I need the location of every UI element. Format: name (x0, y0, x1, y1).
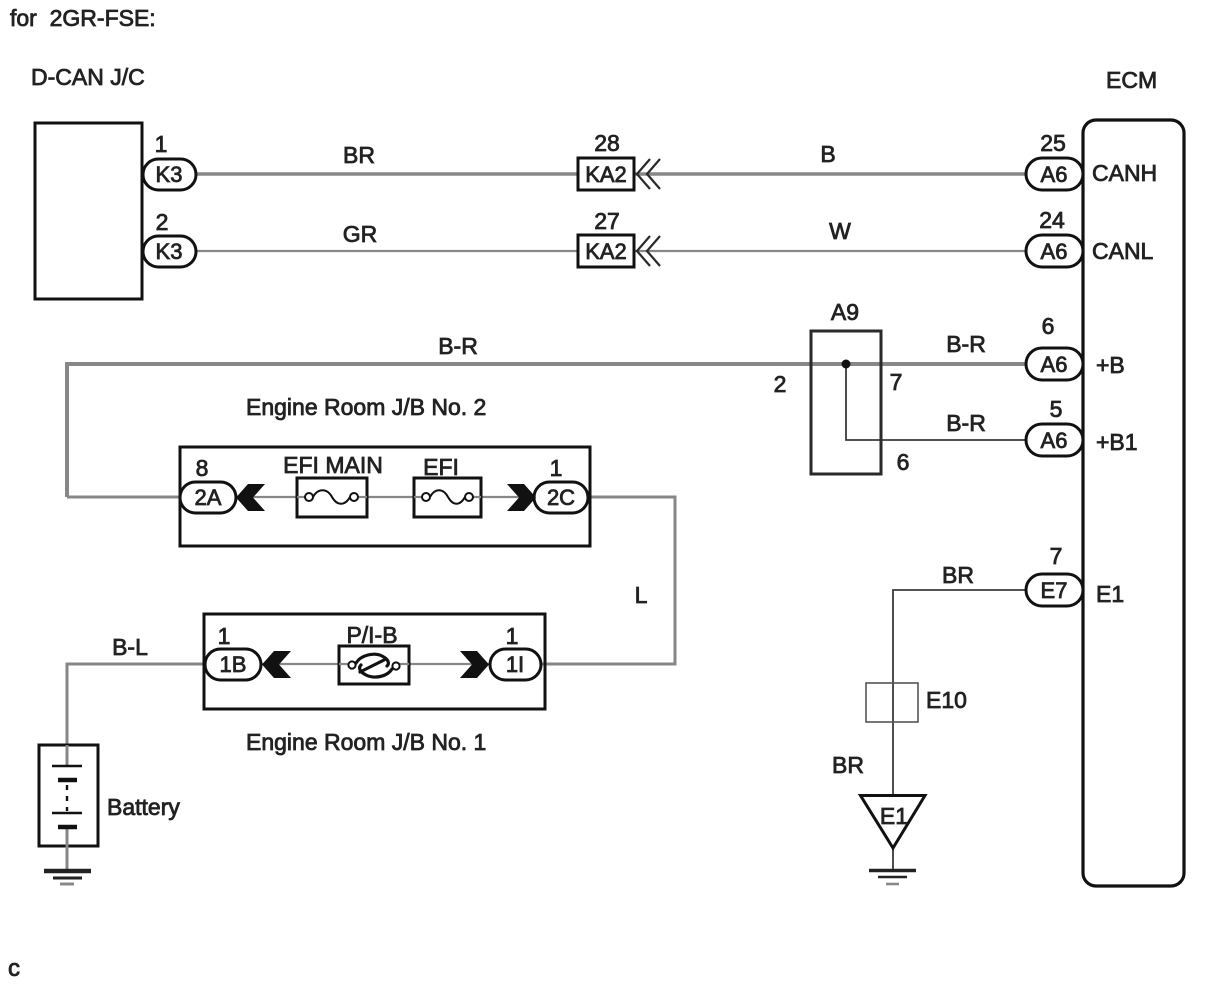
svg-text:E10: E10 (926, 687, 967, 713)
svg-text:1: 1 (218, 623, 231, 649)
svg-text:2: 2 (774, 371, 787, 397)
svg-text:2C: 2C (547, 485, 575, 510)
svg-text:Engine Room J/B No. 1: Engine Room J/B No. 1 (246, 729, 486, 755)
svg-text:KA2: KA2 (585, 239, 627, 264)
svg-text:for 2GR-FSE:: for 2GR-FSE: (10, 5, 156, 31)
svg-text:5: 5 (1050, 396, 1063, 422)
svg-text:EFI MAIN: EFI MAIN (283, 452, 383, 478)
svg-text:27: 27 (594, 208, 620, 234)
svg-text:A6: A6 (1041, 239, 1068, 264)
svg-text:B: B (820, 141, 835, 167)
svg-text:D-CAN J/C: D-CAN J/C (31, 64, 145, 90)
svg-text:+B1: +B1 (1096, 429, 1138, 455)
svg-text:ECM: ECM (1106, 67, 1157, 93)
svg-text:BR: BR (343, 142, 375, 168)
svg-text:K3: K3 (156, 239, 183, 264)
svg-text:1: 1 (155, 131, 168, 157)
svg-text:CANL: CANL (1092, 238, 1154, 264)
svg-text:1I: 1I (506, 652, 524, 677)
svg-text:L: L (635, 582, 648, 608)
svg-text:KA2: KA2 (585, 162, 627, 187)
svg-text:K3: K3 (156, 162, 183, 187)
svg-text:BR: BR (942, 562, 974, 588)
svg-text:P/I-B: P/I-B (346, 622, 397, 648)
svg-text:Battery: Battery (107, 794, 180, 820)
svg-text:B-L: B-L (112, 634, 148, 660)
svg-text:24: 24 (1039, 207, 1065, 233)
svg-text:EFI: EFI (423, 454, 459, 480)
svg-text:A6: A6 (1041, 352, 1068, 377)
svg-text:+B: +B (1096, 352, 1125, 378)
svg-text:7: 7 (890, 369, 903, 395)
svg-text:c: c (8, 955, 20, 982)
svg-text:A6: A6 (1041, 162, 1068, 187)
svg-text:25: 25 (1040, 130, 1066, 156)
svg-text:7: 7 (1050, 543, 1063, 569)
svg-text:E7: E7 (1041, 578, 1068, 603)
svg-text:W: W (829, 218, 851, 244)
svg-text:E1: E1 (1096, 581, 1124, 607)
svg-text:B-R: B-R (946, 331, 986, 357)
svg-text:1B: 1B (220, 652, 247, 677)
svg-text:A6: A6 (1041, 428, 1068, 453)
svg-text:B-R: B-R (946, 410, 986, 436)
svg-text:BR: BR (832, 752, 864, 778)
svg-text:CANH: CANH (1092, 160, 1157, 186)
svg-text:GR: GR (343, 221, 378, 247)
svg-text:2A: 2A (195, 485, 222, 510)
svg-text:B-R: B-R (438, 333, 478, 359)
svg-text:6: 6 (897, 449, 910, 475)
svg-text:1: 1 (506, 623, 519, 649)
svg-text:2: 2 (156, 209, 169, 235)
svg-text:E1: E1 (880, 803, 908, 829)
svg-text:Engine Room J/B No. 2: Engine Room J/B No. 2 (246, 394, 486, 420)
svg-text:6: 6 (1042, 313, 1055, 339)
svg-text:A9: A9 (831, 299, 859, 325)
svg-text:8: 8 (196, 455, 209, 481)
svg-text:28: 28 (594, 130, 620, 156)
svg-text:1: 1 (550, 455, 563, 481)
